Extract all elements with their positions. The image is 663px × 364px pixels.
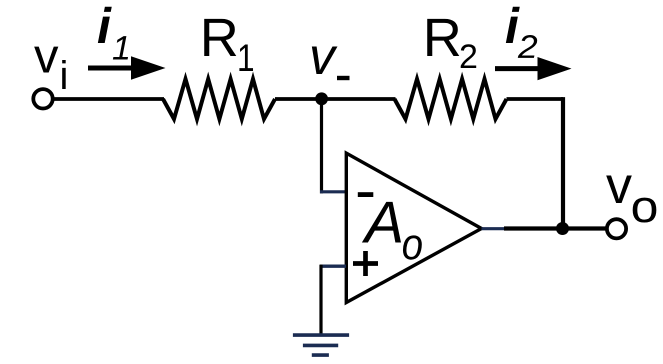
resistor R1: [163, 79, 275, 119]
output junction dot: [556, 222, 569, 235]
plus input stub: [320, 265, 346, 268]
label R1: [204, 19, 253, 71]
wire node down to minus input: [320, 99, 323, 193]
plus sign inside op-amp: [353, 251, 378, 276]
wire plus input to ground: [319, 265, 322, 337]
label v-: [312, 47, 350, 81]
wire R1 to node: [275, 97, 322, 101]
current arrow i2: [495, 57, 572, 80]
label i1: [98, 7, 128, 60]
current arrow i1: [88, 56, 166, 79]
wire R2 to corner: [507, 97, 564, 101]
wire op-amp output stub: [482, 227, 507, 230]
wire feedback vertical: [561, 97, 565, 228]
label vi: [34, 47, 66, 89]
label vo: [606, 176, 656, 223]
minus input stub: [320, 190, 346, 193]
minus sign inside op-amp: [358, 192, 374, 197]
wire input to R1: [53, 97, 165, 101]
label i2: [506, 7, 537, 58]
wire junction to output terminal: [563, 226, 607, 230]
ground: [293, 335, 349, 355]
wire node to R2: [322, 97, 396, 101]
op-amp U1 triangle: [346, 153, 481, 302]
output terminal vo: [607, 219, 626, 238]
resistor R2: [395, 79, 507, 119]
wire output to junction: [504, 226, 563, 230]
label R2: [427, 19, 476, 68]
input terminal vi: [33, 89, 52, 108]
label Ao: [362, 202, 422, 260]
node v- junction dot: [315, 92, 328, 105]
